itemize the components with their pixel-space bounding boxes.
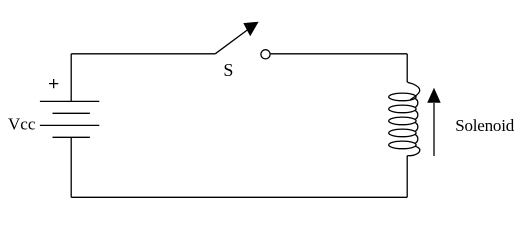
svg-text:Vcc: Vcc: [8, 115, 36, 134]
battery Vcc plate 2 (short): [53, 112, 90, 114]
solenoid coil connector 2-3: [415, 111, 418, 120]
wire: right vertical from top corner down to coil: [406, 54, 408, 82]
switch S arrowhead: [243, 22, 258, 37]
battery Vcc plate 4 (short, bottom): [53, 136, 90, 138]
solenoid coil loop 4: [389, 129, 416, 137]
solenoid coil entry curve: [407, 82, 420, 100]
wire: left vertical from battery bottom plate down to bottom wire: [70, 137, 72, 197]
svg-text:Solenoid: Solenoid: [455, 116, 515, 135]
switch S lever: [215, 28, 250, 54]
wire: bottom horizontal: [71, 196, 407, 198]
solenoid coil loop 2: [389, 105, 416, 113]
solenoid coil loop 5: [389, 141, 416, 149]
solenoid direction arrow shaft: [433, 103, 435, 156]
solenoid coil loop 1: [389, 93, 416, 101]
svg-text:S: S: [223, 60, 233, 80]
solenoid coil exit curve: [407, 146, 420, 157]
battery Vcc plate 3 (long): [40, 124, 99, 126]
wire: right vertical from coil down to bottom wire: [406, 156, 408, 197]
solenoid coil loop 3: [389, 117, 416, 125]
wire: left vertical from top wire down to battery top plate: [70, 54, 72, 102]
label + (battery positive terminal): [49, 79, 58, 88]
wire: top right horizontal from circle to right corner: [271, 53, 408, 55]
wire: top left horizontal from battery to switch: [71, 53, 215, 55]
solenoid coil connector 3-4: [415, 123, 418, 132]
solenoid direction arrow head: [427, 88, 441, 103]
battery Vcc plate 1 (long, top): [40, 100, 99, 102]
solenoid coil connector 1-2: [415, 99, 418, 108]
solenoid coil connector 4-5: [415, 135, 418, 144]
switch right terminal circle: [261, 50, 270, 59]
